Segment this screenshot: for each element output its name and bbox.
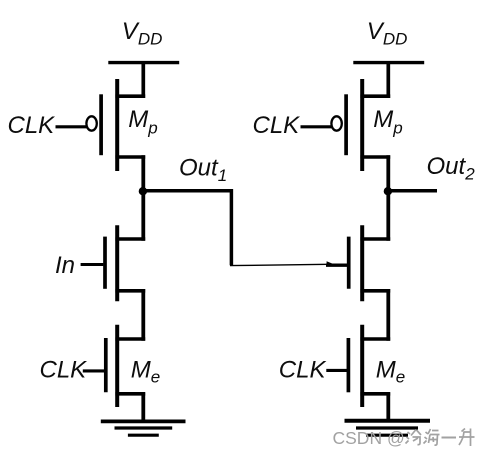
watermark CJK glyph strokes — [406, 429, 475, 447]
svg-text:VDD: VDD — [367, 18, 408, 49]
ground symbol (left stage) — [101, 421, 186, 435]
wire Out2 output stub — [387, 189, 437, 193]
wire CLK to Mp gate bubble (right) — [301, 125, 332, 128]
wire input nmos source to Me drain (right) — [386, 289, 390, 341]
wire CLK to Me gate (right) — [326, 369, 347, 372]
wire Mp source down through Out node to nmos drain (left trunk) — [141, 155, 145, 241]
svg-text:In: In — [55, 252, 75, 279]
node Out2 junction dot — [384, 187, 392, 195]
wire Out1 to right stage (horizontal then corner down) — [142, 191, 232, 265]
wire Me source to ground (right) — [386, 392, 390, 422]
svg-text:Mp: Mp — [128, 106, 157, 138]
svg-text:Out1: Out1 — [179, 155, 227, 186]
pmos transistor Mp (left stage) — [101, 79, 145, 171]
wire In to input nmos gate (left) — [81, 263, 104, 266]
bubble on Mp gate (left) — [86, 116, 96, 130]
wire input nmos source to Me drain (left) — [141, 289, 145, 341]
arrowhead on signal line — [327, 261, 336, 265]
bubble on Mp gate (right) — [331, 116, 341, 130]
VDD rail (left stage) — [108, 61, 179, 64]
svg-text:Me: Me — [131, 356, 160, 386]
svg-text:CLK: CLK — [40, 357, 88, 384]
svg-text:Out2: Out2 — [427, 153, 476, 184]
svg-text:CSDN @: CSDN @ — [333, 428, 405, 448]
nmos input transistor (left stage, gate driven by In) — [105, 225, 145, 301]
ground symbol (right stage) — [345, 421, 431, 435]
svg-text:CLK: CLK — [253, 112, 301, 139]
wire CLK to Mp gate bubble (left) — [56, 125, 87, 128]
nmos transistor Me (left stage) — [106, 325, 145, 407]
wire Mp source down through Out node to nmos drain (right trunk) — [386, 155, 390, 241]
svg-text:Me: Me — [376, 356, 405, 386]
nmos transistor Me (right stage) — [348, 325, 390, 407]
node Out1 junction dot — [139, 187, 147, 195]
svg-text:CLK: CLK — [8, 112, 56, 139]
wire gate stub of right nmos — [326, 264, 349, 267]
wire Mp drain to VDD rail (right) — [386, 61, 390, 98]
svg-text:CLK: CLK — [279, 357, 327, 384]
pmos transistor Mp (right stage) — [346, 79, 390, 171]
nmos transistor (right stage, gate driven by Out1) — [349, 225, 391, 301]
VDD rail (right stage) — [353, 61, 424, 64]
wire Mp drain to VDD rail (left) — [141, 61, 145, 98]
svg-text:VDD: VDD — [122, 18, 163, 49]
svg-text:Mp: Mp — [373, 106, 402, 138]
wire Me source to ground (left) — [141, 392, 145, 422]
wire CLK to Me gate (left) — [83, 369, 105, 372]
wire from Out1 corner to right nmos gate (thin signal line) — [230, 264, 328, 265]
